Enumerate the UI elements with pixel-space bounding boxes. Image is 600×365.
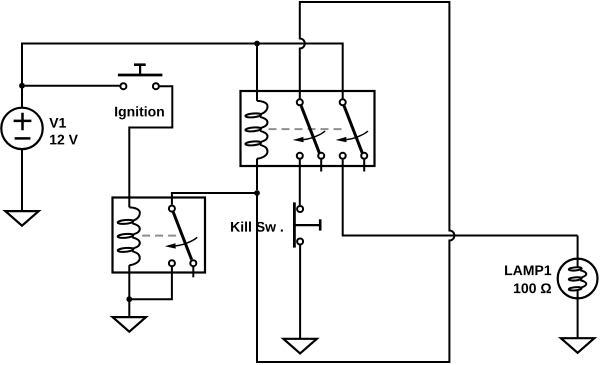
relay K1 switch blade 1	[301, 106, 319, 154]
relay K2 throw contact (N.O., to ground)	[169, 260, 175, 266]
relay K2 unused throw stub	[192, 267, 194, 277]
label V1	[49, 118, 66, 128]
wire: K1 coil bottom to node	[256, 159, 258, 190]
ground below V1	[5, 211, 38, 226]
voltage source V1	[1, 108, 42, 149]
relay K2 switch blade	[173, 212, 191, 260]
label LAMP1	[505, 265, 551, 275]
relay K1 arrow 1	[304, 131, 326, 140]
wire: K2 coil bottom to ground junction	[128, 265, 130, 317]
label Kill Sw .	[231, 221, 283, 231]
node: junction K1 coil bottom / K2 pole / bottom loop	[254, 190, 260, 196]
ground below relay K2	[113, 317, 146, 332]
relay K2 arrow	[176, 237, 198, 246]
relay K1 pin stub 1b	[320, 160, 322, 172]
relay K2 coil	[129, 207, 140, 265]
relay K1 throw contact 1a (to kill switch)	[297, 153, 303, 159]
relay K1 throw contact 1b (N.C.)	[318, 153, 324, 159]
relay K1 body (DPDT)	[241, 91, 375, 166]
relay K1 switch blade 2	[344, 106, 362, 154]
node: junction coil top on rail	[254, 41, 260, 47]
wire: lamp top lead	[577, 236, 579, 259]
wire: top loop from relay pole 1 up, across, down right side, along bottom	[257, 2, 454, 362]
relay K1 pole contact 1	[297, 99, 303, 105]
relay K1 coil	[257, 101, 268, 159]
label 100 Ohm	[514, 283, 551, 293]
wire: K2 NO throw down to ground junction	[129, 267, 172, 299]
node: junction K2 coil/throw/ground	[126, 296, 132, 302]
wire: V1 bottom to ground	[21, 149, 23, 211]
relay K1 pole contact 2	[340, 99, 346, 105]
label Ignition	[115, 106, 164, 119]
relay K2 pole contact	[169, 206, 175, 212]
node: junction V1 / ignition branch	[19, 83, 25, 89]
wire: V1 to ignition switch	[22, 85, 120, 87]
label 12 V	[50, 135, 78, 145]
relay K1 throw contact 2b (N.C.)	[361, 153, 367, 159]
relay K1 pin stub 2b	[363, 160, 365, 172]
wire: K1 throw2 down and right to lamp	[343, 160, 578, 236]
wire: ignition right contact to relay K2 coil	[129, 86, 172, 207]
wire: K1 throw1 down to kill switch	[299, 160, 301, 206]
relay K2 body	[113, 198, 206, 273]
relay K2 dashed actuator link	[142, 235, 176, 237]
wire: K2 pole up and right to node under K1 coil	[172, 193, 257, 205]
lamp LAMP1	[558, 259, 598, 300]
ground below lamp	[561, 338, 594, 353]
relay K1 arrow 2	[346, 131, 368, 140]
relay K2 throw contact (N.C., unused)	[190, 260, 196, 266]
pushbutton Kill Sw (N.C.)	[294, 202, 320, 247]
ground below kill switch	[283, 339, 316, 354]
wire: kill switch to ground	[299, 245, 301, 339]
relay K1 dashed actuator link	[269, 128, 344, 130]
wire: V1 top rail at y=43.5 to relay pole 2	[22, 44, 343, 108]
relay K1 throw contact 2a (to lamp)	[340, 153, 346, 159]
wire: lamp bottom lead	[577, 299, 579, 338]
pushbutton Ignition (N.O.)	[118, 65, 162, 90]
